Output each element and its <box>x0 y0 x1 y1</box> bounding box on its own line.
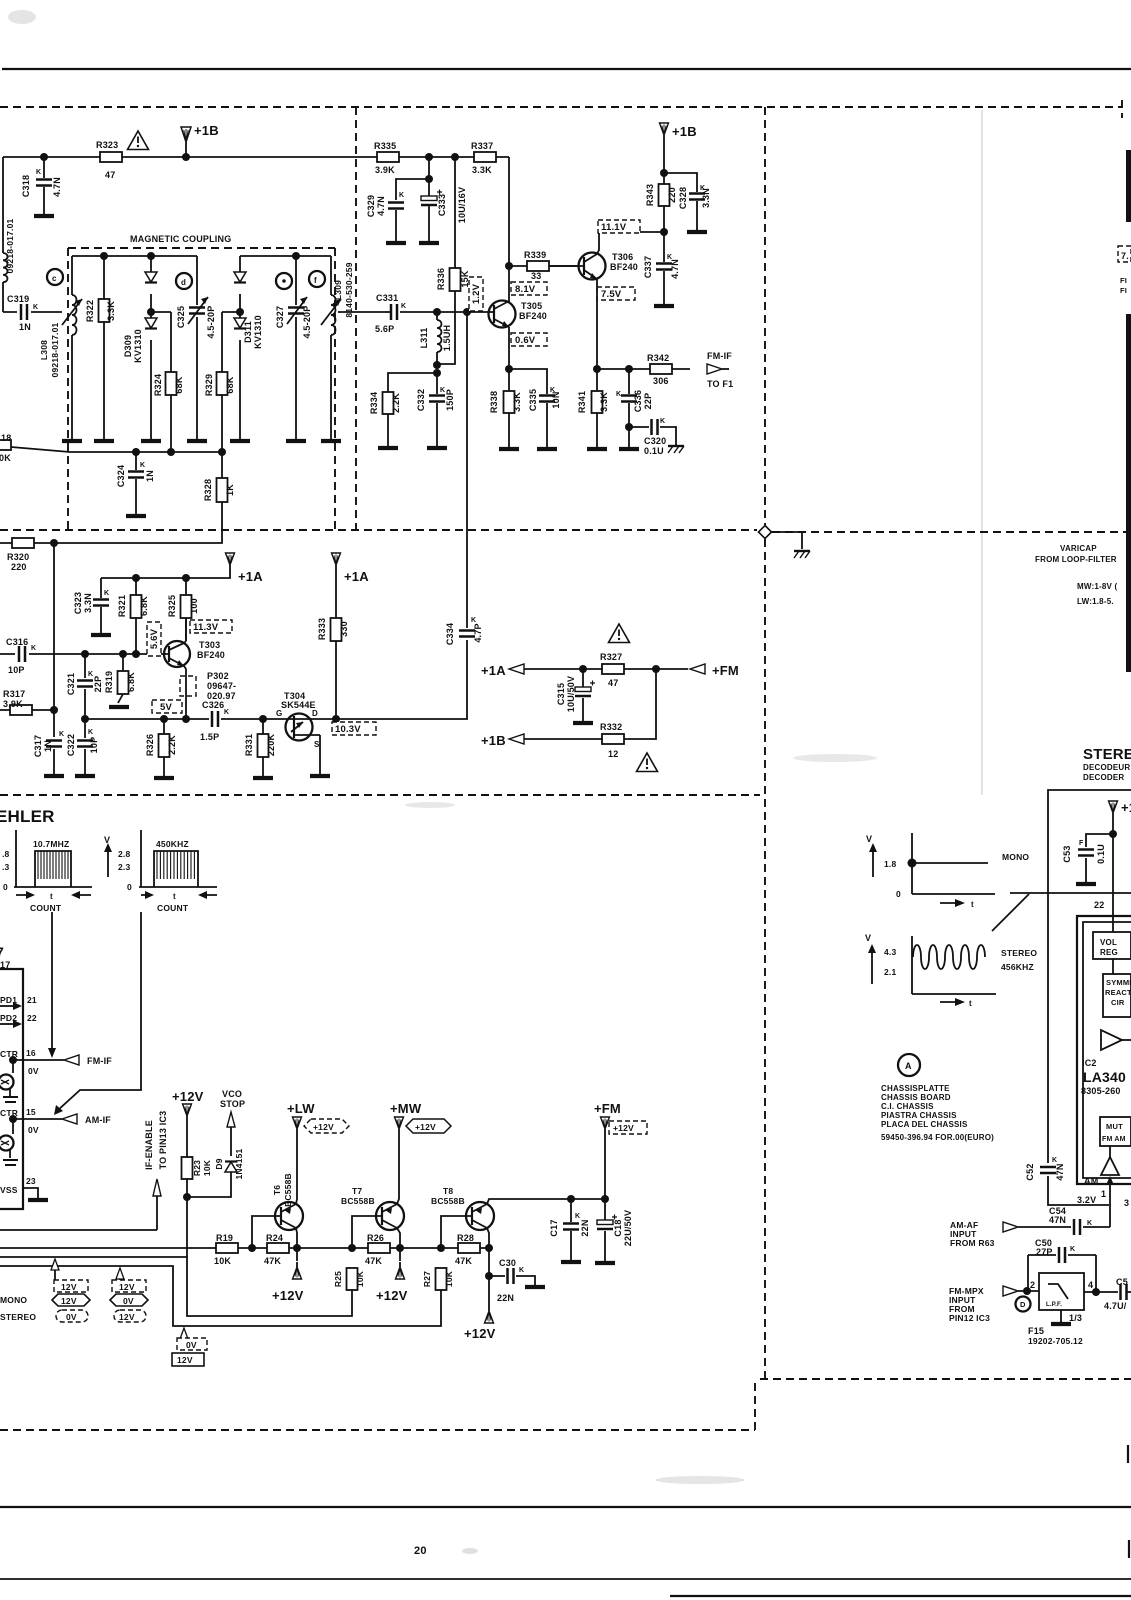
wire C334 feed from T305 base <box>312 312 467 719</box>
svg-text:17: 17 <box>0 960 10 970</box>
wire tank rail B <box>240 255 331 257</box>
svg-text:09218-017.01: 09218-017.01 <box>5 218 15 273</box>
F15 ground 1/3 <box>1060 1310 1062 1322</box>
pin 1 wire <box>1109 1184 1111 1227</box>
warning triangle below R332 <box>637 753 658 772</box>
dashed border: top edge of IF box <box>0 100 1122 118</box>
wire IC2 frame corner / C52 feed <box>1048 790 1131 1205</box>
svg-text:1.5P: 1.5P <box>200 732 219 742</box>
svg-text:d: d <box>181 278 186 287</box>
warning triangle above R327 <box>609 624 630 643</box>
voltage box 0.6V <box>511 333 547 346</box>
transistor T7 <box>352 1216 376 1248</box>
svg-text:K: K <box>59 731 64 738</box>
wire bus y=1248 <box>0 1247 489 1249</box>
svg-text:+FM: +FM <box>594 1101 621 1116</box>
svg-text:10U/50V: 10U/50V <box>566 676 576 712</box>
svg-text:FM-IF: FM-IF <box>707 351 732 361</box>
svg-text:+12V: +12V <box>415 1122 436 1132</box>
filter F15 box <box>1039 1273 1084 1310</box>
svg-text:2.3: 2.3 <box>118 862 130 872</box>
wire T306 emitter <box>596 279 598 369</box>
svg-text:C321: C321 <box>66 673 76 695</box>
svg-text:R325: R325 <box>167 595 177 617</box>
voltage box 5.6V (rotated) <box>147 622 161 656</box>
svg-text:10K: 10K <box>444 1270 454 1287</box>
capacitor C335 <box>509 369 547 447</box>
svg-text:12V: 12V <box>61 1296 77 1306</box>
wire T305 collector <box>508 157 510 302</box>
count interval arrows <box>141 894 217 896</box>
resistor R322 <box>103 256 105 440</box>
page top rule <box>2 68 1131 70</box>
svg-text:+12V: +12V <box>313 1122 334 1132</box>
pointer diagonal stereo/mono <box>992 894 1029 931</box>
svg-text:10N: 10N <box>551 391 561 408</box>
svg-text:K: K <box>88 729 93 736</box>
svg-text:+12V: +12V <box>376 1288 408 1303</box>
svg-text:3.3K: 3.3K <box>106 301 116 321</box>
resistor R337 <box>474 152 496 162</box>
svg-text:EHLER: EHLER <box>0 807 55 826</box>
svg-text:C326: C326 <box>202 700 224 710</box>
svg-text:BC558B: BC558B <box>341 1196 375 1206</box>
svg-text:12V: 12V <box>177 1355 193 1365</box>
svg-text:C334: C334 <box>445 623 455 645</box>
resistor R319 <box>118 654 123 703</box>
svg-text:0V: 0V <box>186 1340 197 1350</box>
svg-text:MUT: MUT <box>1106 1122 1123 1131</box>
svg-text:5V: 5V <box>160 702 172 713</box>
svg-text:R19: R19 <box>216 1233 233 1243</box>
svg-text:K: K <box>660 418 665 425</box>
svg-text:R336: R336 <box>436 268 446 290</box>
capacitor C317 <box>46 741 62 747</box>
svg-text:R339: R339 <box>524 250 546 260</box>
svg-text:0: 0 <box>3 882 8 892</box>
voltage hexagon +12V (solid) <box>406 1119 451 1133</box>
svg-text:C331: C331 <box>376 293 398 303</box>
svg-text:COUNT: COUNT <box>30 903 62 913</box>
inductor L309 (variable) <box>330 256 332 440</box>
svg-text:18: 18 <box>1 433 11 443</box>
ground chassis (right of diamond) <box>794 551 810 558</box>
svg-text:+1B: +1B <box>194 123 219 138</box>
svg-text:.3: .3 <box>2 862 10 872</box>
resistor R329 <box>222 312 240 478</box>
node diamond at (764,532) <box>759 526 772 539</box>
svg-text:3.2V: 3.2V <box>1077 1195 1096 1205</box>
svg-text:100: 100 <box>189 598 199 614</box>
svg-text:VSS: VSS <box>0 1185 18 1195</box>
scan fold line <box>981 110 983 795</box>
svg-text:CHASSISPLATTE: CHASSISPLATTE <box>881 1084 950 1093</box>
capacitor C325 (trimmer) <box>196 256 198 440</box>
svg-text:K: K <box>399 192 404 199</box>
svg-text:22: 22 <box>27 1013 37 1023</box>
capacitor C50 <box>1028 1254 1096 1256</box>
inductor L311 <box>436 312 438 372</box>
dashed border: bottom-left box bottom y=1430 <box>0 1380 755 1430</box>
svg-text:+1: +1 <box>1121 800 1131 815</box>
svg-text:D: D <box>1020 1300 1026 1309</box>
resistor R28 <box>458 1243 480 1253</box>
wire emitter-row to R334 <box>388 373 437 394</box>
svg-text:R26: R26 <box>367 1233 384 1243</box>
node junctions on rail <box>425 153 433 161</box>
svg-text:R27: R27 <box>422 1271 432 1287</box>
svg-text:C316: C316 <box>6 637 28 647</box>
wire R328 to R320 junction <box>54 502 222 543</box>
svg-text:47: 47 <box>608 678 618 688</box>
svg-text:4: 4 <box>1088 1280 1093 1290</box>
svg-text:LA340: LA340 <box>1083 1069 1126 1085</box>
capacitor C323 <box>100 578 102 633</box>
svg-text:220: 220 <box>11 562 27 572</box>
svg-text:C332: C332 <box>416 389 426 411</box>
IC1 box (partial, left edge) <box>0 969 23 1209</box>
svg-text:C333: C333 <box>437 194 447 216</box>
svg-text:K: K <box>519 1267 524 1274</box>
resistor R328 <box>217 478 228 502</box>
svg-text:8.1V: 8.1V <box>515 284 536 295</box>
dashed border: vertical x=765 <box>764 107 766 1379</box>
svg-text:3: 3 <box>1124 1198 1129 1208</box>
svg-text:C323: C323 <box>73 592 83 614</box>
svg-text:KV1310: KV1310 <box>133 329 143 363</box>
resistor R334 <box>383 392 394 414</box>
svg-text:C319: C319 <box>7 294 29 304</box>
svg-text:C328: C328 <box>678 187 688 209</box>
diode D309 (dual varactor) <box>150 256 152 440</box>
pointer line count2 to AM-IF <box>57 912 141 1111</box>
winding letter d <box>176 273 192 289</box>
svg-text:STOP: STOP <box>220 1099 245 1109</box>
inductor L308 (variable) <box>71 256 73 440</box>
svg-text:4.5-20P: 4.5-20P <box>206 306 216 339</box>
svg-text:3.3K: 3.3K <box>599 392 609 412</box>
svg-text:1N: 1N <box>19 322 31 332</box>
svg-text:R331: R331 <box>244 734 254 756</box>
voltage box 10.3V <box>332 722 376 735</box>
svg-text:C317: C317 <box>33 735 43 757</box>
voltage oval (+12V) dashed <box>304 1119 349 1133</box>
svg-text:CIR: CIR <box>1111 998 1125 1007</box>
svg-text:K: K <box>33 304 38 311</box>
svg-text:C324: C324 <box>116 465 126 487</box>
svg-text:10K: 10K <box>214 1256 231 1266</box>
svg-text:0V: 0V <box>66 1312 77 1322</box>
svg-text:2.2K: 2.2K <box>391 393 401 413</box>
right edge artifact bar 2 <box>1126 314 1131 672</box>
svg-text:SK544E: SK544E <box>281 700 316 710</box>
svg-text:t: t <box>969 999 972 1008</box>
svg-text:R338: R338 <box>489 391 499 413</box>
svg-text:R317: R317 <box>3 689 25 699</box>
wire +1B rail y=157 <box>3 156 509 158</box>
svg-text:+12V: +12V <box>272 1288 304 1303</box>
signal arrow FM-IF / TO F1 <box>707 364 722 374</box>
resistor R323 <box>100 152 122 162</box>
transistor T305 <box>489 301 516 328</box>
partial voltage box [7.] right edge <box>1118 246 1131 262</box>
svg-text:C327: C327 <box>275 306 285 328</box>
signal arrow FM-MPX INPUT FROM PIN12 IC3 <box>1003 1286 1018 1296</box>
signal arrow AM-AF INPUT FROM R63 <box>1003 1222 1018 1232</box>
svg-text:+1A: +1A <box>344 569 369 584</box>
block VOL REG <box>1093 932 1131 959</box>
bottom rules <box>0 1506 1131 1508</box>
svg-text:REG: REG <box>1100 948 1118 957</box>
svg-text:K: K <box>104 590 109 597</box>
voltage box 11.1V <box>598 220 640 233</box>
svg-text:R337: R337 <box>471 141 493 151</box>
svg-text:STEREO: STEREO <box>0 1312 36 1322</box>
capacitor C321 <box>84 654 86 719</box>
+1B power flag (right) <box>660 123 669 140</box>
transistor T8 <box>441 1216 466 1248</box>
svg-text:23: 23 <box>26 1176 36 1186</box>
svg-text:PIN12 IC3: PIN12 IC3 <box>949 1313 990 1323</box>
svg-text:F: F <box>1079 840 1084 847</box>
svg-text:C318: C318 <box>21 175 31 197</box>
svg-text:12: 12 <box>608 749 618 759</box>
svg-text:7.5V: 7.5V <box>601 289 622 300</box>
svg-text:FI: FI <box>1120 276 1127 285</box>
svg-text:R341: R341 <box>577 391 587 413</box>
svg-text:K: K <box>616 391 621 398</box>
svg-text:t: t <box>173 892 176 901</box>
svg-text:4.7N: 4.7N <box>52 177 62 197</box>
wire T306 collector to +1B node <box>597 232 664 254</box>
svg-text:47N: 47N <box>1055 1163 1065 1180</box>
capacitor C328 <box>664 173 697 230</box>
svg-text:R329: R329 <box>204 374 214 396</box>
svg-text:MW:1-8V (: MW:1-8V ( <box>1077 582 1117 591</box>
svg-text:SYMME: SYMME <box>1106 978 1131 987</box>
svg-text:+12V: +12V <box>464 1326 496 1341</box>
svg-text:K: K <box>1052 1157 1057 1164</box>
resistor R324 <box>151 312 171 453</box>
svg-text:10U/16V: 10U/16V <box>457 187 467 223</box>
arrow up IF-ENABLE <box>153 1179 161 1196</box>
svg-text:R324: R324 <box>153 374 163 396</box>
svg-text:450KHZ: 450KHZ <box>156 839 189 849</box>
svg-text:VOL: VOL <box>1100 938 1117 947</box>
wire T303 collector <box>184 618 186 643</box>
+1B power flag <box>181 127 191 155</box>
svg-text:20: 20 <box>414 1545 427 1557</box>
transistor T303 <box>164 641 190 667</box>
waveform 10.7MHZ pulse burst <box>35 851 71 887</box>
svg-text:PLACA DEL CHASSIS: PLACA DEL CHASSIS <box>881 1120 968 1129</box>
dashed border: divider x=356 <box>355 107 357 530</box>
svg-text:D: D <box>312 709 318 718</box>
svg-text:D311: D311 <box>243 321 253 343</box>
wire pin22 rail <box>1112 818 1114 932</box>
node base junctions <box>433 308 441 316</box>
svg-text:MONO: MONO <box>1002 852 1029 862</box>
svg-text:t: t <box>50 892 53 901</box>
svg-text:R319: R319 <box>104 671 114 693</box>
svg-text:BF240: BF240 <box>197 650 225 660</box>
svg-text:R321: R321 <box>117 595 127 617</box>
svg-text:+FM: +FM <box>712 663 739 678</box>
svg-text:FI: FI <box>1120 286 1127 295</box>
svg-text:0V: 0V <box>123 1296 134 1306</box>
svg-text:STEREO: STEREO <box>1083 746 1131 763</box>
svg-text:K: K <box>31 645 36 652</box>
svg-text:12V: 12V <box>119 1282 135 1292</box>
+MW power flag <box>395 1117 404 1134</box>
svg-text:L.P.F.: L.P.F. <box>1046 1302 1062 1308</box>
right edge small ticks <box>1128 1445 1129 1558</box>
capacitor C320 <box>625 423 633 431</box>
winding letter f <box>309 271 325 287</box>
voltage box 5V <box>152 700 182 713</box>
svg-text:09218-017.01: 09218-017.01 <box>50 322 60 377</box>
svg-text:330: 330 <box>339 621 349 637</box>
dashed border: y=530 horizontal <box>0 529 757 531</box>
svg-text:K: K <box>575 1213 580 1220</box>
amp triangle <box>1101 1030 1122 1050</box>
svg-text:TO PIN13 IC3: TO PIN13 IC3 <box>158 1111 168 1170</box>
svg-text:59450-396.94 FOR.00(EURO): 59450-396.94 FOR.00(EURO) <box>881 1133 994 1142</box>
wire emitter row to R342 <box>597 368 690 370</box>
svg-text:10P: 10P <box>89 737 99 754</box>
resistor R25 <box>347 1268 358 1290</box>
+1A power flag (over R333) <box>332 553 341 570</box>
wire +1B branch <box>663 140 665 184</box>
svg-text:+1A: +1A <box>238 569 263 584</box>
counter mosfet symbol 1 <box>12 1060 14 1073</box>
svg-text:c: c <box>52 274 57 283</box>
svg-text:FM AM: FM AM <box>1102 1136 1126 1143</box>
resistor R332 <box>602 734 624 744</box>
svg-text:4.7N: 4.7N <box>670 259 680 279</box>
wire T305 emitter <box>508 327 510 369</box>
resistor R24 <box>267 1243 289 1253</box>
svg-text:V: V <box>865 933 871 943</box>
svg-text:f: f <box>314 276 317 285</box>
svg-text:MAGNETIC COUPLING: MAGNETIC COUPLING <box>130 234 231 244</box>
svg-text:BF240: BF240 <box>519 311 547 321</box>
winding letter c <box>47 269 63 285</box>
svg-text:R343: R343 <box>645 184 655 206</box>
dashed border: stereo box top y=532 <box>772 531 1131 533</box>
+FM power flag <box>601 1117 610 1134</box>
svg-text:D309: D309 <box>123 335 133 357</box>
waveform 450KHZ axes <box>139 830 217 887</box>
svg-text:V: V <box>104 835 110 845</box>
svg-text:1.5UH: 1.5UH <box>442 325 452 352</box>
svg-text:5.6V: 5.6V <box>149 628 160 649</box>
svg-text:4.3: 4.3 <box>884 947 896 957</box>
svg-text:R326: R326 <box>145 734 155 756</box>
wire gate rail y=719 <box>85 718 287 720</box>
svg-text:+12V: +12V <box>613 1123 634 1133</box>
pointer line count1 to FM-IF <box>51 912 53 1049</box>
svg-text:T303: T303 <box>199 640 220 650</box>
svg-text:47K: 47K <box>365 1256 382 1266</box>
state label column 2 <box>116 1268 124 1279</box>
resistor R327 <box>583 668 688 670</box>
capacitor C326 <box>212 711 218 727</box>
capacitor C333 (electrolytic) <box>421 196 437 205</box>
resistor R325 <box>185 578 187 641</box>
voltage box 8.1V <box>511 282 547 295</box>
svg-text:0.1U: 0.1U <box>1096 844 1106 864</box>
svg-text:C336: C336 <box>633 390 643 412</box>
svg-text:2.8: 2.8 <box>118 849 130 859</box>
svg-text:PIASTRA CHASSIS: PIASTRA CHASSIS <box>881 1111 957 1120</box>
capacitor C315 (electrolytic) <box>582 669 584 722</box>
svg-text:22: 22 <box>1094 900 1104 910</box>
+1A power flag (T303) <box>226 553 235 570</box>
+12V flag (IC2) <box>1109 801 1118 818</box>
svg-text:1.2V: 1.2V <box>471 283 482 304</box>
svg-text:1: 1 <box>1101 1189 1106 1199</box>
wire AGC bus y=453 <box>11 447 222 452</box>
svg-text:V: V <box>866 834 872 844</box>
svg-text:27P: 27P <box>1036 1247 1053 1257</box>
svg-text:C5: C5 <box>1116 1277 1128 1287</box>
winding letter e <box>276 273 292 289</box>
svg-text:0K: 0K <box>0 453 11 463</box>
svg-text:C.I. CHASSIS: C.I. CHASSIS <box>881 1102 934 1111</box>
svg-text:3.3N: 3.3N <box>83 593 93 613</box>
warning triangle <box>128 131 149 150</box>
svg-text:C30: C30 <box>499 1258 516 1268</box>
svg-text:R334: R334 <box>369 392 379 414</box>
svg-text:FROM LOOP-FILTER: FROM LOOP-FILTER <box>1035 555 1117 564</box>
svg-text:10P: 10P <box>8 665 25 675</box>
capacitor C54 <box>1018 1226 1110 1228</box>
svg-text:0.6V: 0.6V <box>515 335 536 346</box>
wire mono output to IC2 <box>1010 892 1131 894</box>
waveform 450KHZ pulse burst <box>154 851 198 887</box>
svg-text:AM: AM <box>1084 1176 1098 1186</box>
voltage box 7.5V <box>597 287 635 300</box>
svg-text:C335: C335 <box>528 389 538 411</box>
svg-text:REACT: REACT <box>1105 988 1131 997</box>
svg-text:68K: 68K <box>174 376 184 393</box>
svg-text:1K: 1K <box>225 484 235 496</box>
svg-text:K: K <box>140 462 145 469</box>
svg-text:47N: 47N <box>1049 1215 1066 1225</box>
wire C329/C333 branch <box>396 157 429 200</box>
svg-text:220K: 220K <box>266 734 276 757</box>
svg-text:R328: R328 <box>203 479 213 501</box>
resistor R335 <box>377 152 399 162</box>
svg-text:3.9K: 3.9K <box>3 699 23 709</box>
pin 4 node <box>1084 1291 1118 1293</box>
+12V flag under T6 <box>296 1248 298 1261</box>
svg-text:3.3K: 3.3K <box>472 165 492 175</box>
svg-text:BF240: BF240 <box>610 262 638 272</box>
svg-text:1.8: 1.8 <box>884 859 896 869</box>
svg-text:R327: R327 <box>600 652 622 662</box>
svg-text:L308: L308 <box>39 340 49 360</box>
resistor R326 <box>163 719 165 776</box>
signal arrow +1B (lower) <box>509 734 524 744</box>
resistor R333 <box>335 570 337 719</box>
scan noise top-left <box>8 10 36 24</box>
capacitor C334 <box>459 631 475 637</box>
capacitor C319 <box>3 311 62 313</box>
resistor R321 <box>135 578 137 654</box>
chassis note circle A <box>898 1054 920 1076</box>
